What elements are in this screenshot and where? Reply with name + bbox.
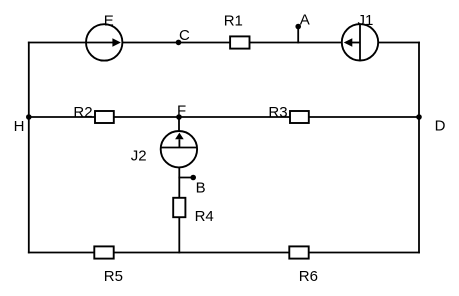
label H	[14, 118, 25, 135]
svg-text:B: B	[196, 180, 206, 197]
svg-text:R4: R4	[195, 208, 214, 225]
resistor R2	[95, 111, 114, 123]
label R1	[224, 13, 243, 30]
resistor R5	[94, 246, 113, 258]
label F	[177, 102, 186, 119]
wire node A stub	[297, 27, 299, 43]
svg-text:D: D	[435, 118, 446, 135]
label A	[300, 11, 310, 28]
wire top E-C-R1-A-J1	[29, 42, 419, 44]
node C	[176, 40, 182, 46]
label J1	[358, 12, 374, 29]
resistor R6	[289, 246, 308, 258]
label R5	[104, 268, 123, 285]
svg-text:H: H	[14, 118, 25, 135]
voltage source E	[86, 24, 122, 60]
label E	[104, 13, 114, 30]
svg-text:R6: R6	[299, 268, 318, 285]
node B	[190, 175, 196, 181]
wire R4 to bottom	[178, 217, 180, 252]
wire node B stub	[179, 177, 193, 179]
wire right vertical D branch	[418, 43, 420, 253]
wire J2 to R4	[178, 167, 180, 198]
label C	[179, 27, 190, 44]
label R6	[299, 268, 318, 285]
svg-text:C: C	[179, 27, 190, 44]
wire F to J2	[178, 117, 180, 131]
wire bottom R5-R6	[29, 252, 419, 254]
current source J2	[161, 131, 197, 167]
svg-text:E: E	[104, 13, 114, 30]
svg-text:J1: J1	[358, 12, 374, 29]
wire left vertical H branch	[28, 43, 30, 253]
label R3	[268, 104, 287, 121]
svg-text:R5: R5	[104, 268, 123, 285]
label D	[435, 118, 446, 135]
node A	[295, 24, 301, 30]
wire middle H-R2-F-R3-D	[29, 116, 419, 118]
label R4	[195, 208, 214, 225]
svg-text:R1: R1	[224, 13, 243, 30]
svg-text:A: A	[300, 11, 310, 28]
svg-text:R2: R2	[73, 104, 92, 121]
node H	[26, 114, 32, 120]
resistor R1	[230, 36, 249, 48]
label J2	[131, 148, 147, 165]
node F	[176, 114, 182, 120]
resistor R4	[173, 198, 185, 217]
svg-text:F: F	[177, 102, 186, 119]
svg-text:R3: R3	[268, 104, 287, 121]
node D	[416, 114, 422, 120]
current source J1	[342, 24, 378, 60]
label B	[196, 180, 206, 197]
label R2	[73, 104, 92, 121]
resistor R3	[290, 111, 309, 123]
svg-text:J2: J2	[131, 148, 147, 165]
